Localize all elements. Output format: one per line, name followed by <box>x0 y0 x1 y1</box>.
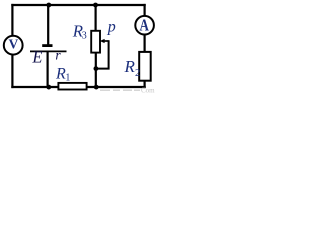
svg-text:Com: Com <box>141 87 155 93</box>
svg-text:1: 1 <box>65 72 70 83</box>
ammeter A <box>135 16 154 35</box>
battery cell E,r : short thick plate <box>42 44 52 47</box>
svg-text:r: r <box>55 48 61 63</box>
battery cell: long thin plate <box>30 50 67 52</box>
svg-text:p: p <box>107 18 116 35</box>
wire: battery branch lower (cell to bottom bus) <box>46 52 48 88</box>
wire: slider lead (down then left to junction) <box>96 40 109 68</box>
svg-text:R: R <box>124 57 136 76</box>
voltmeter V <box>4 36 23 55</box>
node: junction dot bottom bus / rheostat <box>94 85 99 90</box>
wire: left branch lower (voltmeter to bottom bus) <box>11 55 13 88</box>
watermark <box>100 87 155 95</box>
wire: rheostat branch upper (top bus to box) <box>94 5 96 31</box>
resistor R1 (box in bottom bus) <box>58 83 86 90</box>
svg-text:R: R <box>55 65 66 82</box>
wire: battery branch upper (top bus down to cell) <box>47 5 49 45</box>
node: junction dot bottom bus / battery <box>46 85 51 90</box>
wire: bottom bus left segment <box>11 86 58 88</box>
wire: right branch from top bus corner down to ammeter <box>144 4 146 16</box>
node: junction dot top bus / battery <box>46 3 51 8</box>
svg-text:A: A <box>140 15 150 34</box>
svg-text:2: 2 <box>135 68 140 79</box>
svg-text:V: V <box>9 38 19 53</box>
wire: top horizontal bus <box>11 4 145 6</box>
svg-text:E: E <box>31 48 42 67</box>
rheostat R3 (vertical box) <box>91 31 100 53</box>
wire: left branch upper (top bus to voltmeter) <box>11 4 13 35</box>
svg-text:3: 3 <box>82 30 87 41</box>
wire: bottom bus right segment <box>86 86 145 88</box>
slider arrow of rheostat <box>100 39 105 43</box>
wire: R2 to bottom bus corner <box>144 81 146 88</box>
wire: rheostat branch lower (box to bottom bus) <box>95 53 97 89</box>
wire: ammeter to R2 <box>144 35 146 53</box>
node: junction dot top bus / rheostat <box>93 3 98 8</box>
resistor R2 (vertical box) <box>139 52 151 81</box>
node: junction dot slider / rheostat bottom <box>94 66 99 71</box>
